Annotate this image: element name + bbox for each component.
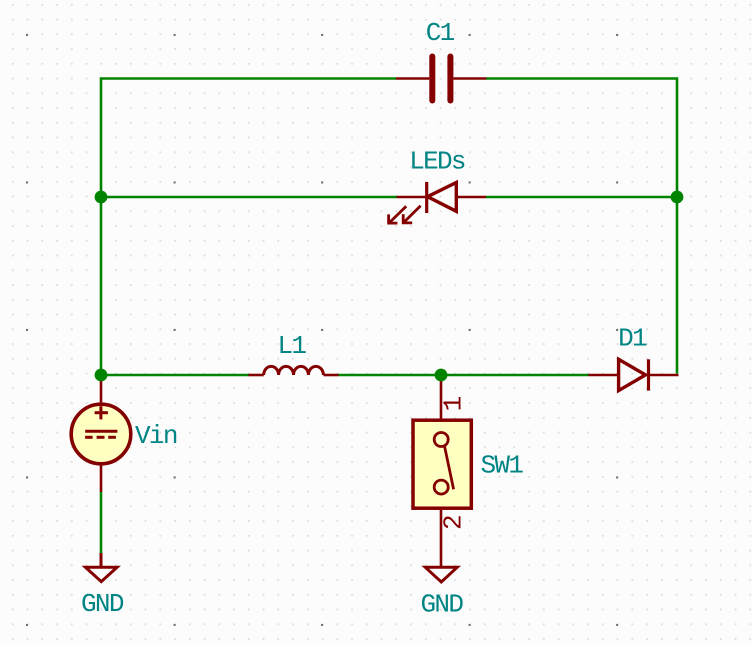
svg-text:1: 1	[439, 396, 469, 411]
diode D1	[589, 359, 679, 390]
junction at left wire / LED row	[95, 191, 108, 204]
wire top-right loop	[486, 79, 677, 374]
ground GND1	[85, 553, 117, 582]
svg-text:GND: GND	[421, 589, 464, 619]
junction at right wire / LED row	[671, 191, 684, 204]
junction at SW1 tap	[435, 369, 448, 382]
wire top-left loop	[101, 79, 396, 376]
capacitor C1	[396, 57, 486, 101]
svg-text:C1: C1	[426, 18, 455, 48]
LED D (LEDs)	[389, 182, 486, 223]
wire LED row left	[101, 196, 397, 199]
wire Vin to GND	[100, 492, 103, 553]
svg-text:Vin: Vin	[135, 421, 177, 451]
svg-text:LEDs: LEDs	[409, 147, 465, 177]
wire bottom row left	[101, 374, 249, 377]
svg-text:SW1: SW1	[481, 451, 524, 481]
svg-text:L1: L1	[277, 331, 306, 361]
switch SW1	[413, 375, 471, 567]
wire bottom row middle	[339, 374, 589, 377]
svg-text:GND: GND	[81, 589, 124, 619]
inductor L1	[249, 366, 339, 375]
svg-text:D1: D1	[618, 323, 647, 353]
junction at left wire / L1 row (Vin tap)	[95, 369, 108, 382]
wire LED row right	[486, 196, 677, 199]
svg-text:2: 2	[439, 516, 469, 530]
ground GND2	[425, 567, 457, 582]
voltage source Vin	[71, 375, 131, 492]
